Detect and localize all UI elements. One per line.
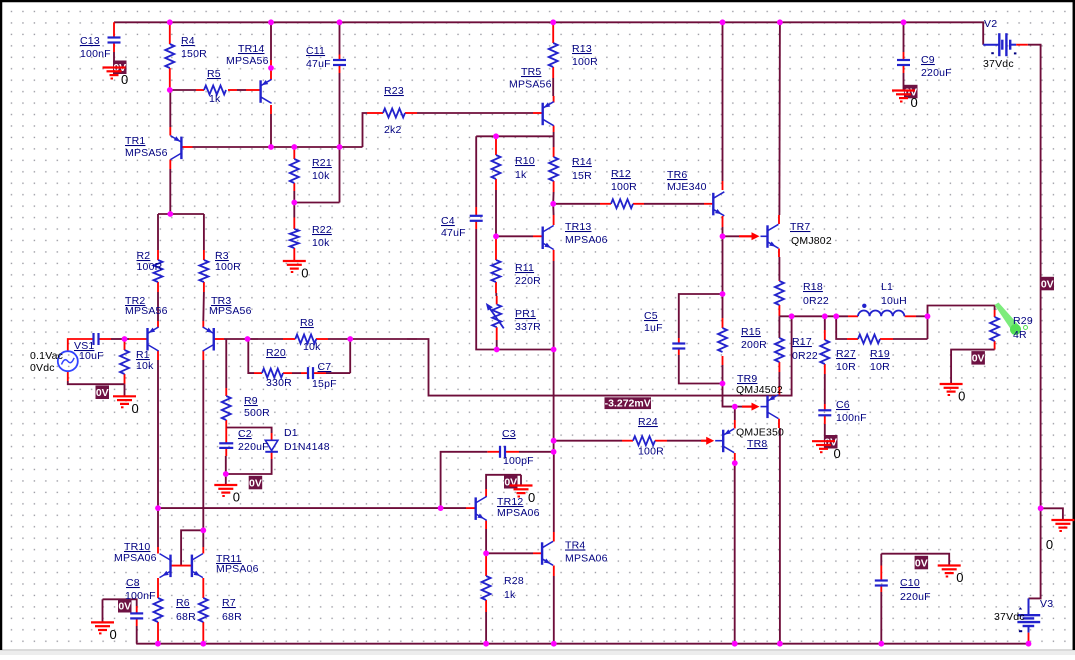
svg-text:0V: 0V: [915, 557, 928, 569]
svg-text:MPSA06: MPSA06: [216, 563, 259, 575]
svg-text:MPSA56: MPSA56: [209, 305, 252, 317]
svg-text:R11: R11: [515, 262, 534, 274]
svg-text:R18: R18: [803, 281, 823, 293]
svg-text:0: 0: [834, 446, 841, 461]
svg-text:0V: 0V: [1041, 278, 1054, 290]
svg-text:PR1: PR1: [515, 308, 536, 320]
svg-text:R21: R21: [312, 157, 332, 169]
svg-text:MPSA06: MPSA06: [565, 234, 608, 246]
svg-text:0V: 0V: [96, 387, 109, 399]
svg-text:MPSA06: MPSA06: [497, 507, 540, 519]
svg-text:1uF: 1uF: [644, 322, 663, 334]
svg-text:1k: 1k: [515, 169, 527, 181]
svg-text:R22: R22: [312, 224, 332, 236]
svg-text:200R: 200R: [741, 339, 767, 351]
svg-text:R27: R27: [836, 348, 856, 360]
svg-text:15R: 15R: [572, 170, 592, 182]
svg-text:V3: V3: [1040, 598, 1053, 610]
svg-text:47uF: 47uF: [306, 58, 331, 70]
svg-text:TR4: TR4: [565, 540, 585, 552]
svg-text:R8: R8: [300, 317, 314, 329]
svg-text:C2: C2: [238, 428, 252, 440]
svg-text:MPSA56: MPSA56: [125, 305, 168, 317]
svg-text:10uH: 10uH: [881, 295, 907, 307]
svg-text:37Vdc: 37Vdc: [983, 58, 1014, 70]
svg-text:10k: 10k: [312, 170, 330, 182]
svg-text:TR1: TR1: [125, 135, 145, 147]
svg-text:L1: L1: [881, 281, 893, 293]
svg-text:10R: 10R: [836, 361, 856, 373]
svg-text:337R: 337R: [515, 321, 541, 333]
svg-text:R20: R20: [266, 347, 286, 359]
svg-text:0: 0: [301, 266, 308, 281]
svg-text:47uF: 47uF: [441, 227, 466, 239]
svg-text:MPSA56: MPSA56: [509, 79, 552, 91]
svg-text:D1: D1: [284, 427, 298, 439]
svg-text:TR6: TR6: [667, 169, 687, 181]
svg-text:100nF: 100nF: [836, 412, 867, 424]
svg-text:C11: C11: [306, 45, 325, 57]
svg-text:R29: R29: [1013, 315, 1033, 327]
svg-text:10uF: 10uF: [79, 350, 104, 362]
svg-text:0: 0: [956, 570, 963, 585]
svg-text:100R: 100R: [137, 261, 163, 273]
svg-text:TR8: TR8: [747, 438, 767, 450]
svg-text:C9: C9: [921, 54, 935, 66]
svg-text:R17: R17: [792, 336, 812, 348]
svg-text:4R: 4R: [1013, 329, 1027, 341]
svg-text:R13: R13: [572, 43, 592, 55]
svg-text:100R: 100R: [638, 446, 664, 458]
svg-text:220R: 220R: [515, 275, 541, 287]
svg-text:220uF: 220uF: [900, 591, 931, 603]
svg-text:C10: C10: [900, 577, 920, 589]
svg-text:R28: R28: [504, 575, 524, 587]
svg-text:0: 0: [958, 389, 965, 404]
svg-text:TR7: TR7: [790, 221, 810, 233]
svg-text:V2: V2: [984, 18, 997, 30]
svg-text:R4: R4: [181, 35, 195, 47]
svg-text:R24: R24: [638, 416, 658, 428]
svg-text:R10: R10: [515, 155, 535, 167]
svg-text:500R: 500R: [244, 407, 270, 419]
svg-text:68R: 68R: [222, 611, 242, 623]
svg-text:D1N4148: D1N4148: [284, 441, 330, 453]
svg-text:QMJ802: QMJ802: [791, 235, 832, 247]
svg-text:QMJ4502: QMJ4502: [736, 384, 783, 396]
svg-text:MPSA56: MPSA56: [125, 147, 168, 159]
svg-text:R12: R12: [611, 168, 631, 180]
svg-text:0: 0: [1046, 537, 1053, 552]
svg-text:C13: C13: [80, 35, 100, 47]
svg-text:10k: 10k: [136, 360, 154, 372]
svg-text:0: 0: [121, 72, 128, 87]
svg-text:0: 0: [233, 490, 240, 505]
svg-text:1k: 1k: [209, 93, 221, 105]
svg-text:MPSA06: MPSA06: [114, 552, 157, 564]
svg-text:R19: R19: [870, 348, 890, 360]
svg-text:10k: 10k: [303, 341, 321, 353]
svg-text:C4: C4: [441, 215, 455, 227]
svg-text:0: 0: [132, 401, 139, 416]
svg-text:15pF: 15pF: [312, 378, 337, 390]
svg-text:0.1Vac: 0.1Vac: [30, 350, 63, 362]
svg-text:C5: C5: [644, 310, 658, 322]
svg-text:MJE340: MJE340: [667, 181, 707, 193]
svg-text:150R: 150R: [181, 48, 207, 60]
svg-text:-3.272mV: -3.272mV: [605, 398, 651, 410]
svg-text:220uF: 220uF: [238, 441, 269, 453]
svg-text:100nF: 100nF: [80, 48, 111, 60]
svg-text:0V: 0V: [504, 477, 517, 489]
svg-text:10k: 10k: [312, 237, 330, 249]
svg-text:C7: C7: [318, 361, 332, 373]
svg-text:100R: 100R: [572, 56, 598, 68]
svg-text:0R22: 0R22: [792, 350, 818, 362]
svg-text:MPSA06: MPSA06: [565, 553, 608, 565]
svg-text:R14: R14: [572, 156, 592, 168]
svg-text:TR5: TR5: [521, 66, 541, 78]
svg-text:2k2: 2k2: [384, 124, 402, 136]
svg-text:68R: 68R: [176, 611, 196, 623]
svg-text:100R: 100R: [611, 181, 637, 193]
svg-text:100pF: 100pF: [503, 455, 534, 467]
svg-text:0Vdc: 0Vdc: [30, 362, 55, 374]
svg-text:0: 0: [911, 95, 918, 110]
svg-text:37Vdc: 37Vdc: [994, 611, 1025, 623]
svg-text:0: 0: [528, 490, 535, 505]
svg-text:R7: R7: [222, 597, 236, 609]
svg-text:0V: 0V: [249, 477, 262, 489]
svg-text:C8: C8: [126, 577, 140, 589]
svg-text:1k: 1k: [504, 589, 516, 601]
svg-text:0R22: 0R22: [803, 295, 829, 307]
svg-text:TR13: TR13: [565, 221, 591, 233]
svg-text:R23: R23: [384, 85, 404, 97]
svg-text:0: 0: [110, 627, 117, 642]
svg-text:0V: 0V: [972, 353, 985, 365]
svg-text:10R: 10R: [870, 361, 890, 373]
svg-text:100nF: 100nF: [125, 590, 156, 602]
svg-text:MPSA56: MPSA56: [226, 55, 269, 67]
svg-text:330R: 330R: [266, 377, 292, 389]
svg-text:220uF: 220uF: [921, 67, 952, 79]
svg-text:100R: 100R: [215, 261, 241, 273]
svg-text:C3: C3: [502, 428, 516, 440]
svg-text:0V: 0V: [118, 601, 131, 613]
svg-text:QMJE350: QMJE350: [736, 427, 784, 439]
svg-text:R5: R5: [207, 68, 221, 80]
svg-text:R15: R15: [741, 326, 761, 338]
svg-text:R9: R9: [244, 395, 258, 407]
svg-text:TR14: TR14: [238, 43, 264, 55]
svg-text:C6: C6: [836, 399, 850, 411]
svg-text:R6: R6: [176, 597, 190, 609]
